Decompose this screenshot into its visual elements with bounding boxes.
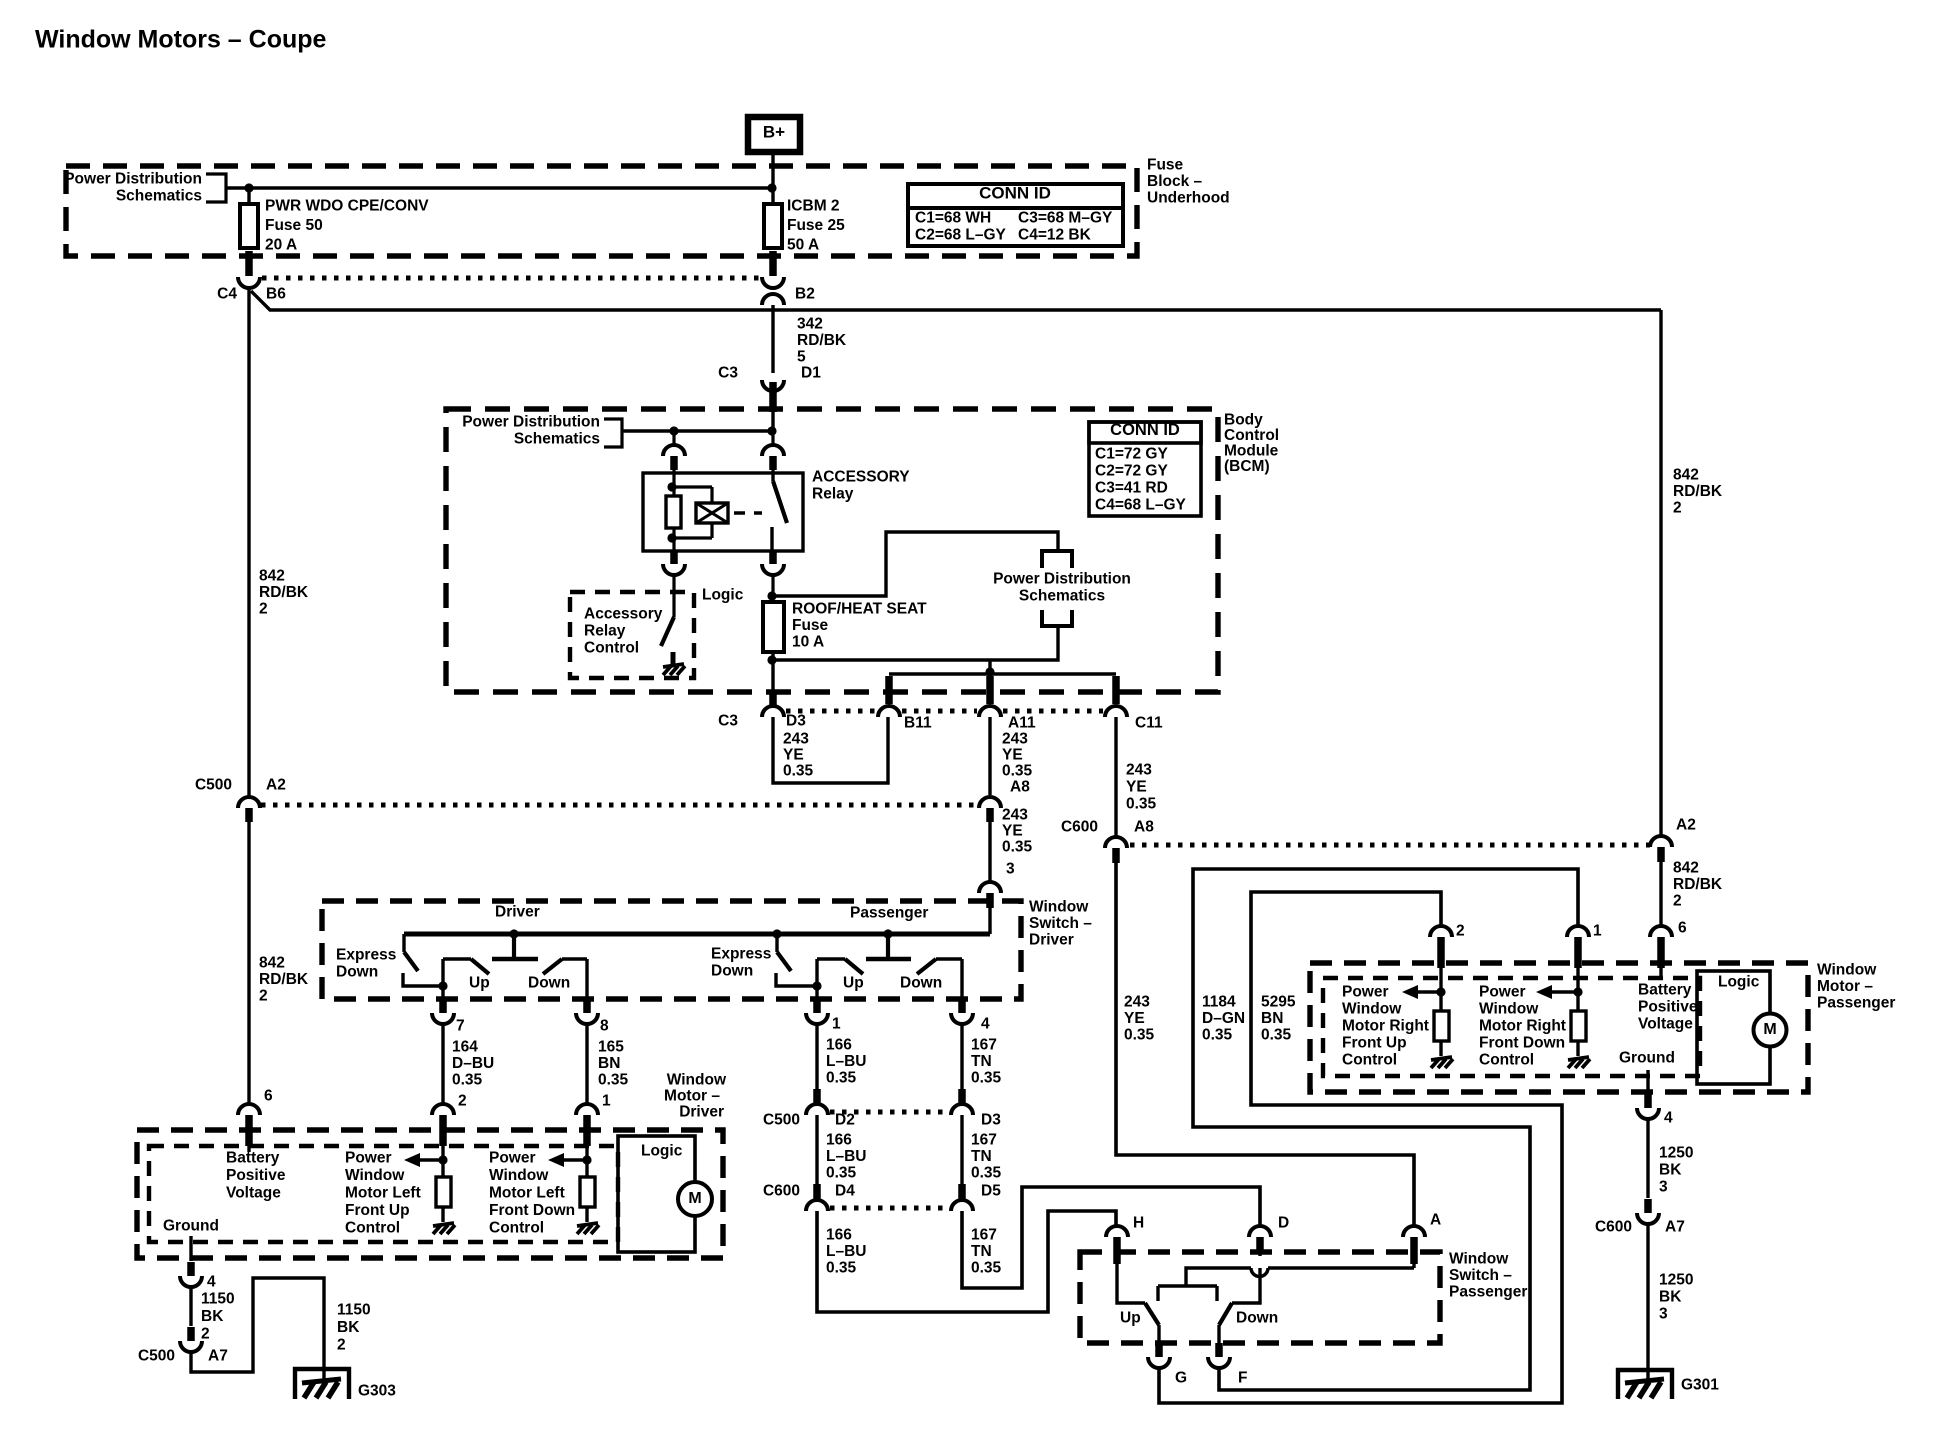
svg-text:Switch –: Switch – [1449, 1267, 1512, 1284]
svg-text:(BCM): (BCM) [1224, 458, 1270, 475]
svg-text:L–BU: L–BU [826, 1243, 866, 1260]
motor element right front up control [1402, 968, 1453, 1068]
svg-text:Control: Control [1224, 427, 1279, 444]
svg-text:166: 166 [826, 1227, 852, 1244]
svg-text:PWR WDO CPE/CONV: PWR WDO CPE/CONV [265, 198, 429, 215]
svg-text:Driver: Driver [495, 904, 540, 921]
wire 1250 BK 3 (lower) [1648, 1224, 1693, 1381]
svg-text:Power Distribution: Power Distribution [64, 171, 202, 188]
label Window Switch - Driver [1029, 899, 1092, 949]
svg-text:A8: A8 [1010, 779, 1030, 796]
label Up (passenger switch) [1120, 1310, 1141, 1327]
svg-text:Down: Down [336, 964, 378, 981]
ground G303 [295, 1369, 396, 1400]
svg-text:C500: C500 [138, 1348, 175, 1365]
svg-text:BK: BK [201, 1308, 224, 1325]
svg-text:3: 3 [1659, 1306, 1668, 1323]
svg-text:Power: Power [345, 1150, 392, 1167]
svg-text:Fuse: Fuse [792, 617, 829, 634]
node junction relay coil tap [669, 426, 678, 435]
svg-text:Battery: Battery [1638, 982, 1692, 999]
wire 243 YE jumper D3 to B11 [773, 717, 888, 783]
label ACCESSORY Relay [812, 469, 910, 503]
connector relay contact output [762, 550, 784, 596]
wire 5295 BN 0.35 (F to motor pin 1) [1193, 869, 1578, 1390]
ground G301 [1618, 1370, 1719, 1399]
svg-text:Power: Power [1342, 984, 1389, 1001]
svg-text:167: 167 [971, 1132, 997, 1149]
svg-text:C500: C500 [763, 1112, 800, 1129]
connector driver motor pin 4 [180, 1262, 216, 1291]
svg-text:1250: 1250 [1659, 1272, 1693, 1289]
wire 243 YE 0.35 to passenger switch A [1116, 863, 1414, 1226]
svg-text:C1=68 WH: C1=68 WH [915, 210, 991, 227]
svg-text:Power Distribution: Power Distribution [462, 414, 600, 431]
svg-text:164: 164 [452, 1039, 478, 1056]
wire 243 YE 0.35 (C11) [1116, 717, 1157, 837]
svg-text:Up: Up [469, 975, 490, 992]
connector C500 pin A2 [195, 777, 286, 823]
svg-text:B+: B+ [763, 123, 785, 142]
svg-text:2: 2 [1456, 923, 1465, 940]
label Power Window Motor Left Front Down Control [489, 1150, 575, 1237]
svg-text:Passenger: Passenger [1817, 995, 1895, 1012]
svg-text:A2: A2 [1676, 817, 1696, 834]
svg-text:YE: YE [1002, 823, 1023, 840]
svg-text:C3=68 M–GY: C3=68 M–GY [1018, 210, 1113, 227]
svg-text:C600: C600 [1061, 819, 1098, 836]
connector C600 pin A8 [1061, 819, 1154, 864]
conn id table BCM [1089, 421, 1201, 516]
label Passenger (section) [850, 905, 928, 922]
svg-text:Window: Window [1449, 1251, 1509, 1268]
connector passenger switch pin F [1208, 1343, 1247, 1387]
relay coil [666, 473, 681, 551]
box Window Switch - Passenger [1080, 1252, 1440, 1343]
svg-text:Power Distribution: Power Distribution [993, 571, 1131, 588]
svg-text:0.35: 0.35 [971, 1165, 1002, 1182]
svg-text:B6: B6 [266, 286, 286, 303]
svg-text:L–BU: L–BU [826, 1148, 866, 1165]
svg-text:TN: TN [971, 1243, 992, 1260]
svg-text:A7: A7 [208, 1348, 228, 1365]
wire to ground G303 [191, 1278, 324, 1381]
svg-text:Up: Up [843, 975, 864, 992]
svg-text:1: 1 [1593, 923, 1602, 940]
svg-text:G303: G303 [358, 1383, 396, 1400]
svg-text:1: 1 [832, 1016, 841, 1033]
wire 842 RD/BK 2 (driver feed) [249, 289, 309, 1104]
switch passenger common T [866, 934, 911, 959]
svg-text:F: F [1238, 1370, 1247, 1387]
svg-text:842: 842 [1673, 860, 1699, 877]
svg-text:243: 243 [1002, 807, 1028, 824]
svg-text:Schematics: Schematics [116, 188, 202, 205]
label Battery Positive Voltage (driver) [226, 1146, 286, 1202]
fuse ICBM 2 Fuse 25 50A [764, 188, 845, 254]
connector driver switch pin 1 [806, 999, 841, 1033]
wire 243 YE 0.35 below A8 [990, 807, 1033, 883]
wire 167 TN 0.35 (upper) [962, 1024, 1002, 1089]
wire 166 L-BU 0.35 (upper) [817, 1024, 866, 1089]
svg-text:Fuse: Fuse [1147, 157, 1184, 174]
svg-text:RD/BK: RD/BK [1673, 876, 1723, 893]
power node B+ [748, 117, 800, 152]
wire label 1150 BK 2 (lower) [337, 1302, 371, 1354]
box passenger motor inner [1323, 978, 1700, 1076]
connector C4 pin B6 [217, 251, 286, 303]
svg-text:D3: D3 [981, 1112, 1001, 1129]
label Window Motor - Driver [664, 1072, 727, 1121]
fuse ROOF/HEAT SEAT 10A [763, 596, 927, 690]
connector C600 pin D4 [763, 1183, 855, 1212]
connector passenger motor pin 4 [1637, 1094, 1673, 1127]
svg-text:20 A: 20 A [265, 237, 297, 254]
svg-text:RD/BK: RD/BK [259, 584, 309, 601]
label Down (passenger) [900, 975, 942, 992]
off-page ref bracket lower (PDS right) [1042, 610, 1072, 626]
svg-text:Positive: Positive [226, 1167, 286, 1184]
svg-text:2: 2 [458, 1093, 467, 1110]
switch passenger up [817, 959, 863, 997]
svg-text:4: 4 [207, 1274, 216, 1291]
svg-text:H: H [1133, 1215, 1144, 1232]
svg-text:Express: Express [711, 946, 771, 963]
svg-text:0.35: 0.35 [1124, 1027, 1155, 1044]
connector C500 pin D3 [951, 1089, 1001, 1129]
svg-text:M: M [688, 1190, 701, 1207]
switch passenger down [917, 959, 962, 997]
svg-text:Driver: Driver [1029, 932, 1074, 949]
svg-text:Power: Power [1479, 984, 1526, 1001]
svg-text:6: 6 [264, 1088, 273, 1105]
svg-text:10 A: 10 A [792, 634, 824, 651]
label Ground (passenger) [1619, 1050, 1675, 1067]
svg-text:842: 842 [1673, 467, 1699, 484]
wire 1250 BK 3 (upper) [1648, 1119, 1693, 1198]
wire 164 D-BU 0.35 [443, 1024, 494, 1104]
label Window Switch - Passenger [1449, 1251, 1527, 1301]
wire BCM feed [622, 412, 773, 431]
svg-text:166: 166 [826, 1037, 852, 1054]
svg-text:B11: B11 [904, 715, 932, 732]
wire 842 RD/BK 2 into pin 6 [1661, 860, 1723, 927]
motor M (driver) [678, 1182, 712, 1216]
svg-text:YE: YE [783, 747, 804, 764]
svg-text:Window Motors – Coupe: Window Motors – Coupe [35, 26, 327, 54]
wire 1150 BK 2 (upper) [191, 1287, 235, 1343]
svg-text:0.35: 0.35 [826, 1070, 857, 1087]
svg-text:Relay: Relay [812, 486, 854, 503]
switch passenger-switch down [1219, 1268, 1260, 1343]
svg-text:Window: Window [489, 1167, 549, 1184]
connector passenger switch pin G [1148, 1343, 1187, 1387]
wire 166 L-BU 0.35 to H [817, 1211, 1116, 1312]
svg-text:Up: Up [1120, 1310, 1141, 1327]
svg-text:BK: BK [1659, 1162, 1682, 1179]
svg-text:Motor –: Motor – [1817, 978, 1873, 995]
svg-text:5: 5 [797, 349, 806, 366]
box Window Motor - Passenger [1310, 963, 1808, 1092]
wire 842 RD/BK branch to passenger (top) [251, 291, 1661, 836]
wire B+ feed bus [226, 152, 773, 188]
svg-text:243: 243 [1124, 994, 1150, 1011]
svg-text:Driver: Driver [679, 1104, 724, 1121]
svg-text:5295: 5295 [1261, 994, 1296, 1011]
svg-text:0.35: 0.35 [826, 1165, 857, 1182]
svg-text:Switch –: Switch – [1029, 915, 1092, 932]
svg-text:RD/BK: RD/BK [1673, 483, 1723, 500]
svg-text:BK: BK [1659, 1289, 1682, 1306]
connector C600 pin A2 (right) [1650, 817, 1696, 863]
node junction ICBM2 tap [767, 183, 776, 192]
svg-text:D1: D1 [801, 365, 821, 382]
connector line dotted C600 right [1130, 843, 1650, 848]
svg-text:Motor Left: Motor Left [345, 1185, 421, 1202]
node junction relay contact tap [767, 426, 776, 435]
label Power Window Motor Left Front Up Control [345, 1150, 421, 1237]
connector relay contact input [762, 431, 784, 473]
connector passenger motor pin 6 [1650, 920, 1687, 969]
connector line dotted C500 left [261, 803, 978, 808]
wire 243 YE 0.35 (A11) [990, 717, 1033, 796]
svg-text:Control: Control [1479, 1052, 1534, 1069]
svg-text:RD/BK: RD/BK [797, 332, 847, 349]
connector driver switch pin 3 [979, 882, 1001, 934]
wire label 243 YE 0.35 (D3) [783, 731, 814, 780]
svg-text:ICBM 2: ICBM 2 [787, 198, 840, 215]
wire label 842 RD/BK 2 (right) [1673, 467, 1723, 517]
svg-text:Control: Control [584, 640, 639, 657]
node junction bus A11 [985, 667, 994, 676]
svg-text:166: 166 [826, 1132, 852, 1149]
connector line dotted BCM bottom [786, 709, 1103, 714]
logic box (passenger motor) [1697, 971, 1770, 1084]
svg-text:Voltage: Voltage [226, 1185, 281, 1202]
label Up (passenger) [843, 975, 864, 992]
svg-text:842: 842 [259, 568, 285, 585]
connector passenger motor pin 1 [1567, 923, 1602, 969]
svg-text:Fuse 25: Fuse 25 [787, 217, 845, 234]
switch driver express down [403, 934, 448, 991]
svg-text:D5: D5 [981, 1183, 1001, 1200]
label Window Motor - Passenger [1817, 962, 1895, 1012]
svg-text:8: 8 [600, 1018, 609, 1035]
label Express Down (driver) [336, 947, 396, 981]
svg-text:YE: YE [1002, 747, 1023, 764]
svg-text:3: 3 [1659, 1179, 1668, 1196]
svg-text:2: 2 [259, 988, 268, 1005]
svg-text:Block –: Block – [1147, 173, 1203, 190]
svg-text:Down: Down [711, 963, 753, 980]
label Accessory Relay Control [584, 606, 663, 657]
svg-text:D: D [1278, 1215, 1289, 1232]
connector C500 pin D2 [763, 1089, 855, 1129]
connector C600 pin A7 [1595, 1199, 1685, 1236]
connector passenger switch pin D [1249, 1215, 1289, 1257]
svg-text:243: 243 [783, 731, 809, 748]
node junction passenger express [772, 929, 781, 938]
svg-text:Front Up: Front Up [345, 1202, 410, 1219]
connector pin A11 [979, 706, 1036, 732]
svg-text:0.35: 0.35 [826, 1260, 857, 1277]
svg-text:Schematics: Schematics [1019, 588, 1105, 605]
svg-text:4: 4 [1664, 1110, 1673, 1127]
svg-text:Underhood: Underhood [1147, 190, 1230, 207]
svg-text:Battery: Battery [226, 1150, 280, 1167]
label Battery Positive Voltage (passenger) [1638, 968, 1698, 1033]
svg-text:Front Down: Front Down [1479, 1035, 1565, 1052]
svg-text:1150: 1150 [201, 1291, 235, 1308]
svg-text:4: 4 [981, 1016, 990, 1033]
svg-text:165: 165 [598, 1039, 624, 1056]
svg-text:Positive: Positive [1638, 999, 1698, 1016]
wire 165 BN 0.35 [587, 1024, 629, 1104]
motor element right front down control [1536, 968, 1590, 1068]
svg-text:2: 2 [1673, 500, 1682, 517]
connector driver switch pin 4 [951, 999, 990, 1033]
svg-text:0.35: 0.35 [452, 1072, 483, 1089]
svg-text:3: 3 [1006, 861, 1015, 878]
svg-text:C4=68 L–GY: C4=68 L–GY [1095, 497, 1187, 514]
node junction fuse10A top [767, 591, 776, 600]
svg-text:ROOF/HEAT SEAT: ROOF/HEAT SEAT [792, 601, 927, 618]
label Driver [495, 904, 540, 921]
label Ground (driver) [163, 1218, 219, 1235]
svg-text:167: 167 [971, 1037, 997, 1054]
title Window Motors - Coupe [35, 26, 327, 54]
svg-text:TN: TN [971, 1148, 992, 1165]
svg-text:YE: YE [1126, 779, 1147, 796]
svg-text:B2: B2 [795, 286, 815, 303]
svg-text:Express: Express [336, 947, 396, 964]
motor element left front down control [548, 1146, 599, 1234]
svg-text:Motor Right: Motor Right [1479, 1018, 1566, 1035]
svg-text:167: 167 [971, 1227, 997, 1244]
connector pin B11 [878, 706, 932, 732]
svg-text:Down: Down [1236, 1310, 1278, 1327]
svg-text:D–BU: D–BU [452, 1055, 494, 1072]
svg-text:Logic: Logic [702, 587, 744, 604]
svg-text:Window: Window [1342, 1001, 1402, 1018]
wire 1184 D-GN 0.35 (G to motor pin 2) [1159, 892, 1562, 1403]
svg-text:G: G [1175, 1370, 1187, 1387]
svg-text:Down: Down [528, 975, 570, 992]
wire 166 L-BU 0.35 (mid) [817, 1115, 866, 1184]
switch passenger-switch bridge bar [1158, 1286, 1217, 1301]
connector pin B2 [762, 251, 815, 305]
svg-text:50 A: 50 A [787, 237, 819, 254]
svg-text:Schematics: Schematics [514, 431, 600, 448]
connector driver motor pin 1 [576, 1093, 611, 1147]
switch driver common T [492, 934, 538, 959]
relay switch contact [772, 473, 787, 551]
svg-text:Accessory: Accessory [584, 606, 663, 623]
label Express Down (passenger) [711, 946, 771, 980]
svg-text:Ground: Ground [163, 1218, 219, 1235]
connector passenger switch pin A [1403, 1212, 1441, 1265]
svg-text:Logic: Logic [641, 1143, 683, 1160]
wire 342 RD/BK 5 [773, 305, 847, 373]
svg-text:243: 243 [1126, 762, 1152, 779]
connector line dotted C600 mid [830, 1206, 948, 1211]
svg-text:Logic: Logic [1718, 974, 1760, 991]
connector passenger motor pin 2 [1430, 923, 1465, 969]
svg-text:A8: A8 [1134, 819, 1154, 836]
svg-text:Power: Power [489, 1150, 536, 1167]
svg-text:C500: C500 [195, 777, 232, 794]
svg-text:Motor –: Motor – [664, 1088, 720, 1105]
svg-text:1184: 1184 [1202, 994, 1236, 1011]
logic box (driver motor) [618, 1136, 695, 1252]
label Down (driver) [528, 975, 570, 992]
svg-text:Down: Down [900, 975, 942, 992]
svg-text:Window: Window [1029, 899, 1089, 916]
svg-text:Control: Control [345, 1220, 400, 1237]
connector C500 pin A7 [138, 1327, 228, 1365]
svg-text:0.35: 0.35 [971, 1260, 1002, 1277]
svg-text:Front Down: Front Down [489, 1202, 575, 1219]
svg-text:Window: Window [1817, 962, 1877, 979]
wire driver switch bus [404, 932, 990, 937]
conn id table fuse block [908, 184, 1123, 246]
switch passenger express down [776, 934, 822, 991]
wire ground (driver motor) [189, 1236, 192, 1261]
off-page ref bracket upper (PDS right) [1042, 551, 1072, 568]
svg-text:Passenger: Passenger [1449, 1284, 1527, 1301]
label Up (driver) [469, 975, 490, 992]
switch passenger-switch up [1117, 1262, 1159, 1343]
svg-text:0.35: 0.35 [598, 1072, 629, 1089]
svg-text:Voltage: Voltage [1638, 1016, 1693, 1033]
wire BCM output bus [889, 660, 1116, 704]
svg-text:0.35: 0.35 [1261, 1027, 1292, 1044]
wire ground (passenger motor) [1646, 1070, 1649, 1093]
relay solenoid X symbol [672, 487, 728, 538]
svg-text:Window: Window [667, 1072, 727, 1089]
svg-text:Front Up: Front Up [1342, 1035, 1407, 1052]
motor M (passenger) [1754, 1014, 1787, 1047]
svg-text:M: M [1763, 1021, 1776, 1038]
svg-text:C3=41 RD: C3=41 RD [1095, 480, 1168, 497]
off-page ref Power Distribution Schematics (BCM) [462, 414, 622, 448]
connector C3 pin D1 (BCM) [718, 365, 821, 413]
svg-text:C600: C600 [1595, 1219, 1632, 1236]
label Power Window Motor Right Front Up Control [1342, 984, 1429, 1069]
label Fuse Block - Underhood [1147, 157, 1230, 207]
svg-text:Fuse 50: Fuse 50 [265, 217, 323, 234]
svg-text:2: 2 [259, 601, 268, 618]
svg-text:Body: Body [1224, 412, 1263, 429]
svg-text:0.35: 0.35 [971, 1070, 1002, 1087]
connector line dotted C500 mid [830, 1110, 948, 1115]
connector driver motor pin 2 [432, 1093, 467, 1147]
svg-text:Ground: Ground [1619, 1050, 1675, 1067]
wire A common with hop over D [1186, 1262, 1414, 1286]
connector C3 pin D3 [718, 690, 806, 730]
svg-text:CONN ID: CONN ID [979, 184, 1051, 203]
connector C500 pin A8 [979, 797, 1001, 822]
svg-text:0.35: 0.35 [783, 763, 814, 780]
svg-text:0.35: 0.35 [1002, 763, 1033, 780]
svg-text:Control: Control [1342, 1052, 1397, 1069]
svg-text:1250: 1250 [1659, 1145, 1693, 1162]
svg-text:C3: C3 [718, 365, 738, 382]
node junction fuse50 tap [244, 183, 253, 192]
node junction driver T [509, 929, 518, 938]
svg-text:0.35: 0.35 [1202, 1027, 1233, 1044]
wire to PDS ref upper [773, 532, 1058, 596]
